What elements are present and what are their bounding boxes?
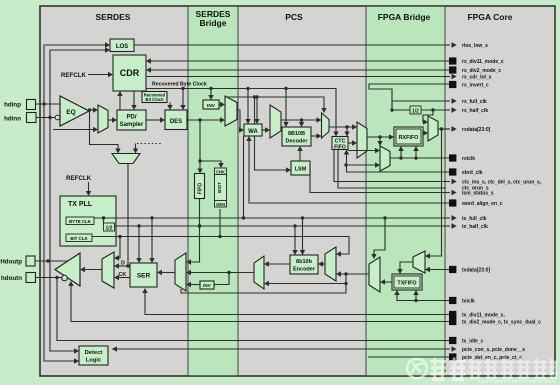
wire tx_idle line to driver (57, 278, 449, 341)
wire word_align_en_c (249, 140, 449, 203)
wire byte clk trunk / tx_full_clk (94, 217, 450, 219)
pin arrow pcie_con_s, pcie_done__s (445, 348, 450, 350)
pin arrow rlos_low_s (445, 44, 450, 46)
pad hdinn (27, 113, 37, 123)
svg-text:LSM: LSM (295, 167, 307, 173)
pin square rxiclk (449, 154, 456, 161)
mux rx-5 (357, 122, 367, 158)
svg-text:8b10b: 8b10b (296, 259, 313, 265)
svg-text:RXFIFO: RXFIFO (399, 135, 419, 141)
wire pcie_con_s from detect (112, 348, 450, 350)
wire rx_half_clk (421, 109, 450, 111)
wire bit clk tap to output mux (118, 237, 120, 259)
svg-text:rlos_low_s: rlos_low_s (462, 43, 488, 49)
pad Hdoutp (26, 256, 35, 266)
pin arrow rx_half_clk (445, 109, 450, 111)
block SER (130, 263, 157, 287)
svg-text:FPGA Core: FPGA Core (467, 12, 512, 22)
svg-text:INV: INV (207, 103, 216, 109)
wire half clk to encoder (294, 226, 296, 251)
block PD/Sampler (117, 110, 146, 130)
wire REFCLK to CDR (88, 74, 108, 76)
wire rx_div2_mode_c to CDR (151, 69, 449, 71)
block GEN (215, 201, 227, 208)
mux tx-F (413, 251, 425, 273)
pin square tx_div2_mode_c, tx_sync_dual_c (449, 318, 456, 325)
pin square pcie_det_en_c, pcie_ct_c (449, 353, 456, 360)
svg-text:Bit Clock: Bit Clock (145, 97, 164, 102)
mux rx-6 (428, 116, 438, 141)
mux rx-3 (270, 105, 281, 138)
svg-text:SER: SER (137, 273, 151, 280)
svg-text:BIT CLK: BIT CLK (70, 236, 88, 241)
wire lower input to rx mux (53, 129, 94, 131)
wire clock to LSM (255, 97, 288, 170)
block FIFO (bridge) (195, 174, 205, 199)
wire rxdata loopback down (429, 129, 442, 256)
mux rx-7 (380, 146, 390, 171)
wire half clk to mux6 (423, 110, 433, 122)
wire rx mux to PD/Sampler (108, 119, 113, 121)
svg-text:lsm_status_s: lsm_status_s (462, 191, 494, 197)
pin square txdata[23:0] (449, 266, 456, 273)
svg-text:tx_half_clk: tx_half_clk (462, 224, 488, 230)
block INV (rx) (203, 100, 219, 109)
block BYTE CLK (66, 217, 94, 225)
wire ebrd branch to mux7 (346, 164, 376, 166)
wire EQ branch down to clock funnel (90, 110, 119, 150)
wire mux5 to RXFIFO (367, 136, 390, 138)
wire rxiclk (390, 157, 449, 159)
wire rxdata out (438, 128, 450, 130)
wire tx_div11 line to SER (145, 292, 449, 315)
wire txiclk (397, 294, 449, 301)
wire EQ to rx mux (89, 109, 94, 111)
svg-text:SERDES: SERDES (96, 12, 131, 22)
wire riser to RXFIFO bottom right (415, 150, 417, 158)
pin square tx_idle_c (449, 337, 456, 344)
wire byte clock to INV (210, 89, 212, 97)
wire ctc status 2 (338, 150, 446, 189)
pin square rx_div11_mode_c (449, 57, 456, 64)
block CHK (215, 168, 227, 175)
svg-text:Bridge: Bridge (200, 18, 227, 28)
pin arrow tx_half_clk (445, 225, 450, 227)
wire muxC out to muxB (190, 272, 254, 274)
svg-text:CK: CK (119, 272, 127, 278)
svg-text:REFCLK: REFCLK (61, 72, 87, 79)
pin arrow lsm_status_s (445, 192, 450, 194)
wire CDR clock to PD (133, 91, 135, 106)
svg-text:rxdata[23:0]: rxdata[23:0] (462, 127, 491, 133)
output driver (55, 253, 80, 286)
svg-text:hdoutn: hdoutn (1, 275, 22, 282)
svg-text:1/2: 1/2 (412, 108, 419, 114)
svg-text:PCS: PCS (285, 12, 303, 22)
wire muxB out to SER (161, 272, 175, 274)
mux rx-4 (322, 113, 330, 138)
block CDR (113, 55, 146, 91)
wire muxE out to muxD (340, 273, 369, 275)
wire bit clk trunk to muxD (92, 237, 349, 255)
svg-text:tx_full_clk: tx_full_clk (462, 216, 487, 222)
svg-text:FPGA Bridge: FPGA Bridge (378, 12, 431, 22)
svg-text:Decoder: Decoder (285, 139, 308, 145)
pad hdinp (27, 100, 36, 110)
wire hdinp to EQ (36, 103, 61, 105)
block TXFIFO (392, 274, 422, 290)
wire hdinn to EQ (36, 117, 56, 119)
pin arrow rxdata[23:0] (445, 128, 450, 130)
wire branch into CTC top (346, 127, 348, 133)
svg-text:FIFO: FIFO (334, 144, 346, 150)
wire bit clock to DES (169, 103, 171, 107)
svg-text:8B10B: 8B10B (288, 131, 305, 137)
wire mux4 out to mux5 (329, 126, 353, 128)
wire ctc status 1 (334, 150, 450, 182)
wire hdinn tap to LOS (50, 50, 110, 118)
svg-text:TX PLL: TX PLL (68, 201, 93, 208)
wire rx_invert_c to clock divider corner (369, 84, 449, 110)
svg-text:BYTE CLK: BYTE CLK (69, 219, 92, 224)
svg-text:Recovered Byte Clock: Recovered Byte Clock (152, 82, 207, 88)
block WA (244, 124, 262, 136)
svg-text:tx_div2_mode_c, tx_sync_dual_c: tx_div2_mode_c, tx_sync_dual_c (462, 320, 541, 326)
wire hdoutn (36, 277, 62, 279)
svg-text:word_align_en_c: word_align_en_c (461, 201, 503, 207)
svg-text:D: D (121, 261, 125, 267)
mux rx-1 after EQ (98, 105, 108, 133)
svg-text:Detect: Detect (85, 350, 103, 356)
watermark glyph (549, 359, 558, 379)
svg-text:rx_half_clk: rx_half_clk (462, 108, 488, 114)
wire Hdoutp (35, 260, 68, 262)
block Recovered Bit Clock (142, 92, 167, 103)
wire hdinn tap down to detect (50, 118, 75, 352)
block BIT CLK (66, 234, 92, 242)
watermark glyph (484, 359, 498, 379)
mux tx-D (325, 247, 336, 281)
wire TXFIFO out to muxE (384, 281, 392, 283)
block 8b10b Encoder (290, 255, 318, 274)
wire ctc read tap to mux7 (348, 150, 376, 152)
wire byte clock to DES (182, 89, 184, 107)
wire txdata in (429, 269, 449, 271)
wire LSM to decoder (299, 150, 301, 161)
mux rx-2 after INV (225, 96, 237, 126)
block DES (165, 110, 187, 130)
svg-text:LOS: LOS (116, 44, 128, 50)
svg-text:pcie_con_s, pcie_done__s: pcie_con_s, pcie_done__s (462, 347, 525, 353)
wire INV tx out to muxB (190, 284, 200, 286)
wire decoder out to mux4 (311, 135, 318, 137)
watermark logo circle (407, 359, 427, 379)
wire muxE branch down to muxC and muxB (181, 274, 346, 293)
pin square ebrd_clk (449, 168, 456, 175)
pin arrow rx_full_clk (445, 100, 450, 102)
wire pcie_det_en_c (368, 356, 449, 358)
wire byte clock to WA (247, 89, 249, 121)
watermark glyph (450, 358, 467, 380)
wire tx_div2 line to driver (71, 285, 449, 322)
svg-text:FIFO: FIFO (197, 183, 203, 194)
svg-text:ebrd_clk: ebrd_clk (462, 170, 483, 176)
wire REFCLK to TX PLL (88, 182, 90, 192)
svg-text:hdinp: hdinp (4, 102, 21, 109)
svg-text:Sampler: Sampler (120, 122, 144, 128)
wire muxA to driver (84, 269, 102, 271)
wire RXFIFO to mux6 (423, 132, 424, 134)
svg-text:Logic: Logic (86, 358, 102, 364)
wire branch down to mux7 (379, 137, 381, 146)
watermark small url text (478, 381, 556, 383)
svg-text:CDR: CDR (120, 68, 140, 78)
mux tx-E (369, 257, 380, 292)
wire byte clk to encoder (302, 218, 304, 251)
wire WA byte clock tap (243, 136, 245, 218)
block divider 1/2 (tx) (104, 223, 115, 231)
pin arrow tx_full_clk (445, 217, 450, 219)
wire hdinp tap to LOS (44, 45, 110, 104)
wire rx_cdr_lol_s from CDR (146, 76, 450, 78)
FPGA Bridge column band (366, 7, 445, 375)
mux tx-C (254, 256, 264, 289)
wire GEN down to bit clk line (219, 209, 221, 237)
svg-text:EQ: EQ (66, 109, 75, 116)
wire into divider (rx) (392, 109, 410, 111)
svg-text:rx_full_clk: rx_full_clk (462, 99, 487, 105)
svg-text:Hdoutp: Hdoutp (0, 259, 22, 266)
wire SER CK out (118, 277, 130, 279)
mux tx-A (102, 252, 114, 288)
inverting input bubble (55, 115, 60, 120)
svg-text:rx_div2_mode_c: rx_div2_mode_c (462, 68, 501, 74)
driver inverting bubble (62, 275, 68, 281)
svg-text:TXFIFO: TXFIFO (397, 281, 416, 287)
wire branch through INV (tx) (214, 273, 229, 285)
wire byte clock to decoder (285, 89, 287, 124)
wire encoder out to muxC (268, 263, 290, 265)
wire LSM status out (310, 170, 450, 193)
svg-text:CHK: CHK (216, 169, 225, 174)
svg-text:BIST: BIST (217, 182, 223, 193)
wire branch into decoder top (301, 120, 303, 123)
wire txiclk branch (415, 294, 417, 301)
svg-text:tx_div11_mode_c,: tx_div11_mode_c, (462, 313, 505, 319)
svg-text:txdata[23:0]: txdata[23:0] (462, 268, 490, 274)
wire clock to WA top (256, 97, 258, 120)
wire half clk to SER (138, 226, 140, 259)
amplifier EQ (60, 96, 89, 126)
watermark glyph (468, 359, 482, 379)
svg-text:PD/: PD/ (126, 115, 136, 121)
svg-text:Encoder: Encoder (293, 267, 316, 273)
pin square tx_div11_mode_c, (449, 311, 456, 318)
svg-text:WA: WA (248, 129, 258, 135)
pin square rx_invert_c (449, 81, 456, 88)
wire WA out to mux3 (262, 129, 266, 131)
pin square word_align_en_c (449, 199, 456, 206)
block LSM (291, 161, 310, 175)
wire pcs clock line (225, 97, 324, 109)
svg-text:REFCLK: REFCLK (66, 175, 92, 182)
svg-text:rxiclk: rxiclk (462, 156, 475, 162)
dotted future clocks (137, 143, 162, 145)
wire ebrd_clk (347, 154, 450, 173)
wire hdinp tap down to detect (44, 104, 75, 361)
wire branch to muxC second input (268, 283, 346, 285)
block RXFIFO (394, 127, 423, 146)
watermark glyph (500, 359, 514, 379)
wire mux3 out to mux4 and decoder (281, 119, 318, 121)
column separator lines (187, 6, 189, 376)
mux tx-B (175, 253, 186, 291)
pin arrow ctc_ins_s, ctc_del_s, ctc_urun_s, (445, 181, 450, 183)
svg-text:rx_div11_mode_c: rx_div11_mode_c (462, 59, 504, 65)
wire muxF to TXFIFO (400, 262, 413, 270)
block BIST (215, 175, 227, 201)
svg-text:rx_cdr_lol_s: rx_cdr_lol_s (462, 75, 492, 81)
wire rx_div11_mode_c to CDR (151, 60, 449, 62)
pad hdoutn (26, 273, 36, 283)
wire into divider 1/2 (103, 218, 105, 223)
wire byte clk to tx bridge mux (374, 218, 385, 255)
wire CTC out to mux5 (348, 142, 353, 144)
block LOS (110, 39, 134, 52)
pin square rx_div2_mode_c (449, 66, 456, 73)
wire SER D out (118, 265, 130, 267)
svg-text:1/2: 1/2 (106, 225, 113, 231)
wire mux2 to WA (237, 110, 241, 130)
block TX PLL (60, 196, 116, 246)
block INV (tx) (200, 281, 214, 289)
pin arrow rx_cdr_lol_s (445, 76, 450, 78)
block divider 1/2 (rx) (410, 106, 421, 114)
wire muxD out to encoder (322, 263, 325, 265)
wire DES out down to FIFO/CHK (199, 120, 201, 170)
wire rlos_low_s from LOS (134, 44, 450, 46)
svg-text:tx_idle_c: tx_idle_c (462, 339, 484, 345)
svg-text:GEN: GEN (216, 202, 225, 207)
wire half clk trunk / tx_half_clk (115, 225, 451, 227)
wire funnel output down to serializer D line (127, 164, 129, 267)
pin square txiclk (449, 297, 456, 304)
svg-text:txiclk: txiclk (462, 299, 475, 305)
SERDES Bridge column band (188, 7, 238, 375)
wire PD/Sampler to DES (146, 119, 161, 121)
block Detect Logic (79, 346, 108, 365)
wire DES out (187, 119, 221, 121)
mux clock funnel (112, 154, 140, 164)
watermark glyph (533, 359, 547, 379)
wire INV out to mux (219, 104, 221, 106)
wire recovered byte clock (146, 89, 336, 133)
wire PD feedback to CDR (119, 95, 121, 110)
wire rx_full_clk (392, 101, 450, 110)
block CTC FIFO (332, 137, 348, 150)
svg-text:hdinn: hdinn (4, 116, 21, 123)
svg-text:rx_invert_c: rx_invert_c (462, 83, 489, 89)
svg-text:INV: INV (203, 283, 212, 288)
wire byte clk to SER (151, 218, 153, 259)
block 8B10B Decoder (282, 127, 311, 146)
watermark glyph (517, 359, 531, 379)
wire mux7 to RXFIFO (390, 150, 401, 158)
wire FIFO down to tx muxB (190, 198, 200, 262)
wire branch to CHK (200, 161, 221, 164)
svg-text:DES: DES (170, 119, 182, 125)
wire dotted clock into funnel (135, 144, 137, 150)
watermark glyph (430, 358, 447, 380)
